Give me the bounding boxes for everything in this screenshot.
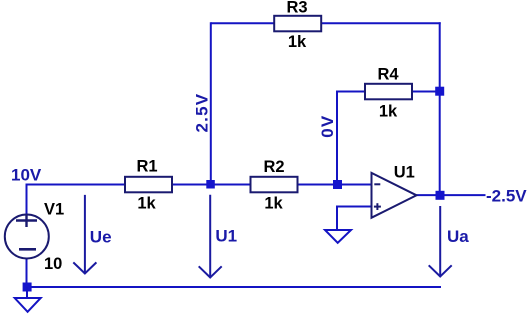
wire R4 left: [336, 91, 366, 93]
svg-text:1k: 1k: [379, 103, 398, 121]
resistor R4: [365, 65, 412, 120]
voltage arrow Ue: [73, 195, 96, 274]
svg-text:Ue: Ue: [90, 227, 112, 246]
wire V1 bottom stem: [26, 258, 28, 288]
svg-text:10V: 10V: [11, 166, 42, 185]
wire op-amp + input: [337, 207, 372, 232]
svg-text:1k: 1k: [264, 195, 283, 213]
wire top: node 2.5V to R3 left: [211, 22, 275, 24]
svg-text:V1: V1: [44, 201, 64, 219]
voltage arrow U1: [199, 195, 222, 278]
svg-text:R1: R1: [136, 158, 157, 176]
svg-text:U1: U1: [394, 164, 415, 182]
resistor R1: [125, 158, 172, 213]
svg-text:R2: R2: [263, 158, 284, 176]
wire R4 right: [411, 91, 440, 93]
node junction: V1 bottom / ground rail: [23, 283, 32, 292]
node junction: main wire / 2.5V: [206, 180, 215, 189]
resistor R3: [274, 0, 321, 51]
wire op-amp output: [417, 194, 486, 196]
svg-text:1k: 1k: [137, 194, 156, 212]
node junction: R4 / right vertical: [435, 87, 444, 96]
op-amp U1: [372, 164, 417, 218]
voltage source V1: [5, 201, 64, 274]
wire V1 top stem: [26, 184, 28, 216]
wire main horizontal (10V node through R1, R2 to op-amp - input): [27, 184, 372, 186]
svg-text:U1: U1: [215, 227, 237, 246]
svg-text:-2.5V: -2.5V: [486, 186, 527, 205]
svg-text:R3: R3: [286, 0, 307, 16]
resistor R2: [251, 158, 298, 213]
svg-text:R4: R4: [377, 65, 399, 83]
svg-text:2.5V: 2.5V: [192, 93, 211, 133]
wire 0V vertical (R4 left down to op-amp - node): [336, 92, 338, 185]
voltage arrow Ua: [429, 206, 452, 277]
ground (op-amp + input): [325, 230, 351, 243]
node junction: main wire / 0V (op-amp - input node): [333, 180, 342, 189]
ground (bottom left): [15, 287, 41, 312]
wire right vertical (2.5V net down to R4 node and op-amp output): [439, 22, 441, 195]
svg-text:10: 10: [44, 255, 62, 273]
wire top: R3 right to right vertical: [320, 22, 441, 24]
wire bottom (ground rail): [27, 286, 442, 288]
svg-text:Ua: Ua: [447, 227, 469, 246]
svg-text:0V: 0V: [318, 115, 337, 138]
node junction: op-amp output: [436, 191, 445, 200]
svg-text:1k: 1k: [288, 33, 307, 51]
wire 2.5V vertical (top wire down to main node): [210, 22, 212, 184]
